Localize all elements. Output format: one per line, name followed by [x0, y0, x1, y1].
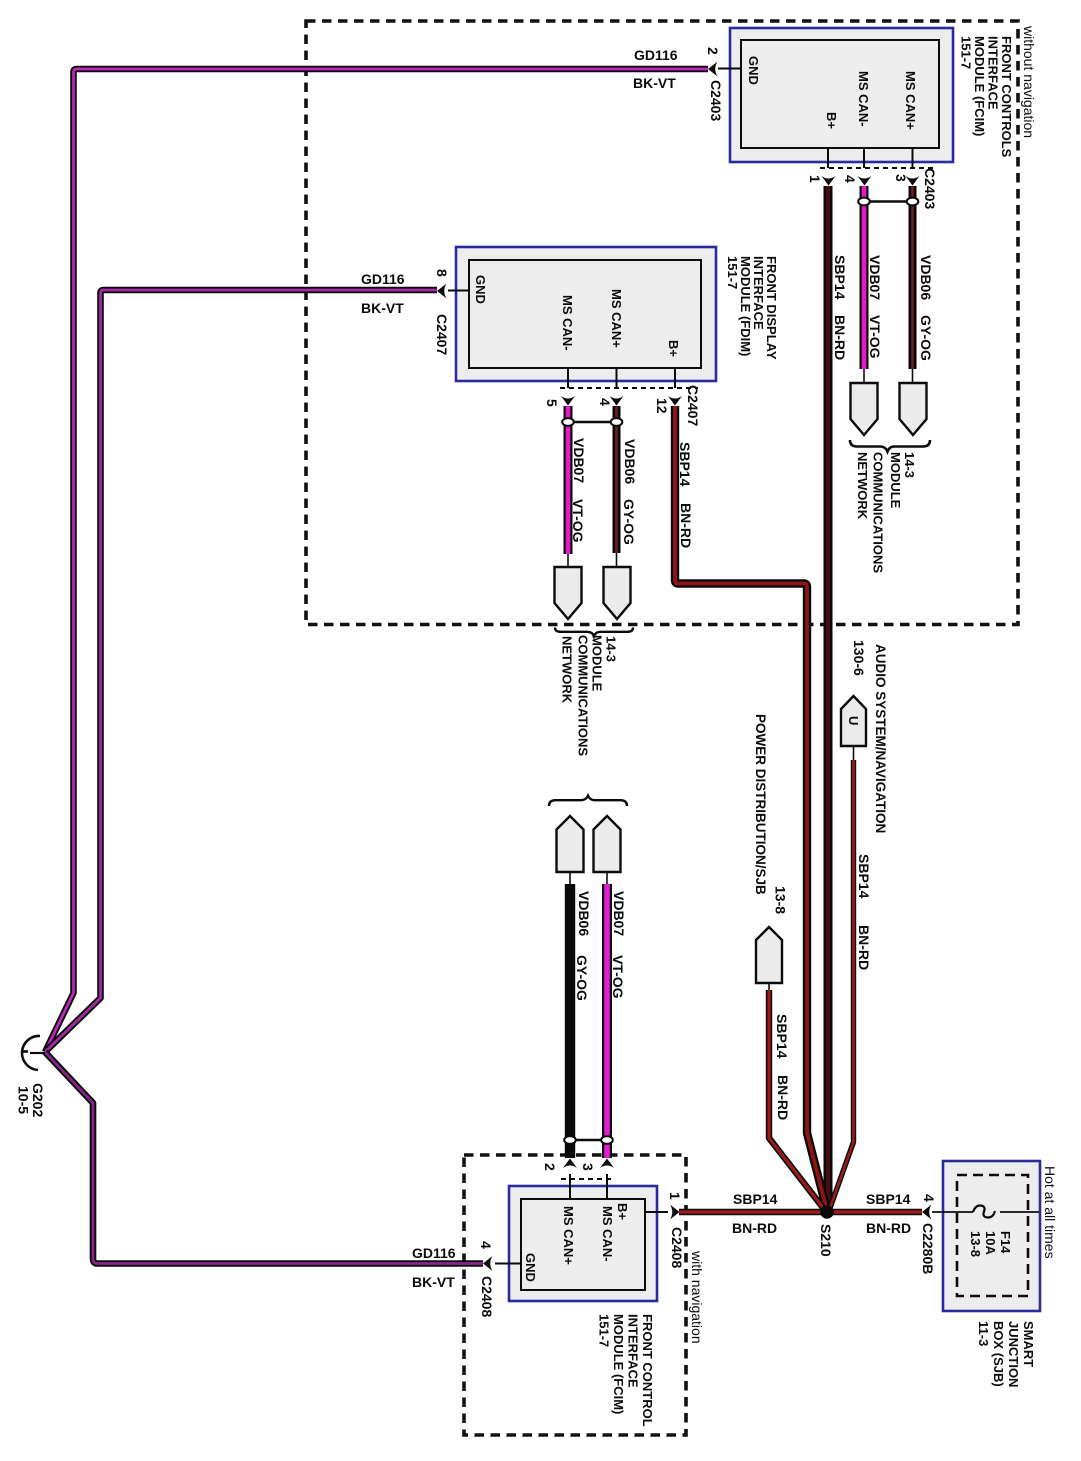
svg-text:2: 2 — [542, 1163, 558, 1171]
svg-text:VDB06: VDB06 — [918, 255, 934, 300]
lead to chevron VDB07 — [863, 369, 865, 383]
svg-text:14-3: 14-3 — [604, 636, 619, 662]
wire GD116 BK-VT from FCIM pin2 to ground G202 (black outer) — [45, 69, 708, 1052]
wire SBP14 BN-RD core (red) — [830, 760, 854, 1208]
fuse feed line — [932, 1211, 1039, 1213]
svg-text:MODULE: MODULE — [590, 635, 605, 692]
svg-text:C2403: C2403 — [922, 168, 938, 209]
pin 12 connector arrow — [668, 396, 682, 406]
connector arrow C2280B (left) — [922, 1205, 932, 1220]
off-page chevron U (audio system) — [841, 696, 866, 746]
wire GD116 BK-VT from FDIM pin8 to ground G202 (black outer) — [45, 290, 437, 1052]
svg-text:4: 4 — [597, 398, 613, 406]
svg-text:13-8: 13-8 — [773, 886, 789, 914]
wire SBP14 BN-RD core (red) — [769, 990, 824, 1209]
svg-text:C2407: C2407 — [685, 385, 701, 426]
wire GD116 BK-VT from ground G202 to FCIM(nav) pin4 (black outer) — [45, 1052, 483, 1264]
svg-text:BK-VT: BK-VT — [633, 75, 676, 91]
module FCIM (top, without navigation) outer box — [730, 28, 953, 162]
network connector chevron up (VDB07, nav) — [594, 816, 621, 872]
svg-text:C2407: C2407 — [434, 314, 450, 355]
svg-text:SBP14: SBP14 — [677, 442, 693, 487]
wire SBP14 BN-RD from FCIM pin1 down to splice S210 (black outer) — [824, 186, 833, 1208]
pin 1 connector arrow (right) — [670, 1205, 680, 1220]
label 14-3 MODULE COMMUNICATIONS NETWORK (FDIM) — [560, 635, 619, 756]
pin 4 lead (MS CAN-) — [863, 148, 865, 168]
svg-text:BN-RD: BN-RD — [678, 503, 694, 548]
svg-text:JUNCTION: JUNCTION — [1006, 1321, 1021, 1387]
svg-text:VT-OG: VT-OG — [867, 315, 883, 359]
svg-text:SBP14: SBP14 — [774, 1014, 790, 1059]
wire SBP14 BN-RD horizontal through splice S210 (black outer) — [679, 1209, 922, 1216]
lead from chevron (VDB07 nav) — [606, 872, 608, 884]
pin 2 connector arrow C2403 — [708, 62, 718, 77]
pin 1 connector arrow — [822, 176, 836, 186]
twisted pair link (FCIM pair) — [864, 200, 913, 203]
svg-text:MS CAN-: MS CAN- — [856, 71, 871, 127]
module FDIM outer box — [456, 247, 716, 381]
svg-text:GY-OG: GY-OG — [574, 955, 590, 1001]
wire GD116 BK-VT core (violet) — [45, 1052, 483, 1264]
svg-text:NETWORK: NETWORK — [855, 452, 870, 520]
svg-text:SBP14: SBP14 — [856, 854, 872, 899]
pin 4 lead (GND, nav) — [495, 1263, 521, 1265]
twisted pair circle left — [562, 418, 574, 426]
label SMART JUNCTION BOX (SJB) 11-3 — [976, 1321, 1036, 1387]
svg-text:130-6: 130-6 — [851, 640, 867, 676]
wire SBP14 BN-RD horizontal core (red) — [679, 1210, 922, 1213]
svg-text:MS CAN+: MS CAN+ — [561, 1206, 576, 1265]
svg-text:without navigation: without navigation — [1021, 25, 1037, 138]
label F14 10A 13-8 — [968, 1231, 1013, 1257]
svg-text:SBP14: SBP14 — [866, 1191, 911, 1207]
svg-text:BN-RD: BN-RD — [832, 315, 848, 360]
wire VDB07 VT-OG from FDIM pin5 (black outer) — [564, 406, 573, 554]
svg-text:FRONT CONTROL: FRONT CONTROL — [640, 1314, 655, 1427]
svg-text:BN-RD: BN-RD — [856, 925, 872, 970]
svg-text:11-3: 11-3 — [976, 1321, 991, 1346]
svg-text:INTERFACE: INTERFACE — [626, 1314, 641, 1388]
wire GD116 BK-VT core (violet) — [45, 290, 437, 1052]
pin 2 lead (nav) — [569, 1174, 571, 1199]
lead from chevron (VDB06 nav) — [569, 872, 571, 884]
label 14-3 MODULE COMMUNICATIONS NETWORK (FCIM) — [855, 452, 917, 573]
svg-text:GD116: GD116 — [634, 47, 678, 63]
wire VDB06 GY-OG core (dark red-brown) — [911, 186, 914, 369]
svg-text:SBP14: SBP14 — [832, 255, 848, 300]
pin 4 connector arrow — [858, 176, 872, 186]
fuse F14 element — [973, 1205, 995, 1217]
lead from power chevron — [768, 983, 770, 990]
svg-text:VDB06: VDB06 — [622, 439, 638, 484]
svg-text:BK-VT: BK-VT — [361, 300, 404, 316]
svg-text:1: 1 — [807, 175, 823, 183]
svg-text:with navigation: with navigation — [689, 1250, 705, 1344]
svg-text:4: 4 — [842, 175, 858, 183]
pin 8 lead (GND) — [448, 290, 469, 292]
wire VDB07 VT-OG core (magenta, nav) — [604, 884, 610, 1158]
wire VDB07 VT-OG down to FCIM(nav) pin3 (black outer) — [602, 884, 612, 1158]
lead to chevron VDB07 (FDIM) — [567, 554, 569, 567]
svg-text:B+: B+ — [615, 1203, 630, 1220]
svg-text:12: 12 — [654, 398, 670, 414]
pin 5 lead (MS CAN-) — [567, 368, 569, 388]
svg-text:B+: B+ — [666, 340, 681, 357]
svg-text:GND: GND — [746, 56, 761, 85]
wire GD116 BK-VT core (violet) — [45, 69, 708, 1052]
wire VDB07 VT-OG core (magenta) — [862, 186, 867, 369]
svg-text:MODULE: MODULE — [888, 452, 903, 509]
svg-text:C2408: C2408 — [669, 1227, 685, 1268]
svg-text:14-3: 14-3 — [902, 452, 917, 478]
svg-text:1: 1 — [667, 1192, 683, 1200]
svg-text:8: 8 — [434, 269, 450, 277]
pin 3 connector arrow — [906, 176, 920, 186]
svg-text:VDB07: VDB07 — [611, 891, 627, 936]
svg-text:COMMUNICATIONS: COMMUNICATIONS — [871, 452, 886, 573]
svg-text:POWER DISTRIBUTION/SJB: POWER DISTRIBUTION/SJB — [753, 714, 768, 895]
dashed enclosure: with navigation system — [464, 1155, 686, 1435]
off-page chevron (power distribution) — [756, 927, 782, 983]
twisted pair circle left (nav) — [564, 1136, 576, 1144]
svg-text:151-7: 151-7 — [959, 36, 974, 69]
svg-text:MS CAN-: MS CAN- — [600, 1206, 615, 1262]
lead to chevron VDB06 — [912, 369, 914, 383]
svg-text:BOX (SJB): BOX (SJB) — [991, 1321, 1006, 1387]
pin 5 connector arrow — [561, 396, 575, 406]
svg-text:C2280B: C2280B — [920, 1223, 936, 1274]
module FCIM inner box — [741, 40, 939, 148]
svg-text:U: U — [846, 716, 861, 725]
ground symbol G202 — [22, 1036, 45, 1070]
network connector chevron (VDB07, FDIM) — [555, 567, 582, 619]
pin 3 connector arrow (up) — [600, 1159, 614, 1169]
svg-text:AUDIO SYSTEM/NAVIGATION: AUDIO SYSTEM/NAVIGATION — [873, 644, 888, 833]
wire SBP14 BN-RD core (dark brown-red) — [826, 186, 830, 1208]
svg-text:2: 2 — [705, 47, 721, 55]
svg-text:5: 5 — [544, 399, 560, 407]
twisted pair circle left — [858, 198, 870, 206]
svg-text:13-8: 13-8 — [968, 1231, 983, 1257]
label FRONT DISPLAY INTERFACE MODULE (FDIM) 151-7 — [725, 256, 779, 360]
svg-text:MODULE (FCIM): MODULE (FCIM) — [611, 1314, 626, 1414]
svg-text:GY-OG: GY-OG — [918, 315, 934, 361]
brace under FCIM chevrons — [850, 440, 930, 452]
svg-text:GND: GND — [473, 275, 488, 304]
splice S210 — [820, 1205, 834, 1219]
svg-text:4: 4 — [921, 1194, 937, 1202]
pin 1 lead (B+) — [827, 148, 829, 168]
network connector chevron up (VDB06, nav) — [557, 816, 584, 872]
svg-text:VT-OG: VT-OG — [570, 499, 586, 543]
module FCIM (bottom, with navigation) outer box — [509, 1186, 657, 1301]
svg-text:C2408: C2408 — [479, 1276, 495, 1317]
svg-text:S210: S210 — [818, 1224, 834, 1257]
svg-text:GY-OG: GY-OG — [621, 499, 637, 545]
brace above nav chevrons — [549, 796, 627, 806]
network connector chevron (VDB06, FCIM) — [900, 383, 927, 435]
svg-text:GND: GND — [523, 1253, 538, 1282]
lead from audio chevron — [853, 746, 855, 760]
svg-text:BK-VT: BK-VT — [412, 1274, 455, 1290]
wire VDB07 VT-OG from FCIM pin4 (black outer) — [860, 186, 869, 369]
wire VDB07 VT-OG core (magenta) — [566, 406, 571, 554]
twisted pair circle right — [611, 418, 623, 426]
svg-text:MS CAN+: MS CAN+ — [903, 71, 918, 130]
wire SBP14 BN-RD from FDIM pin12 to splice S210 (black outer) — [675, 406, 826, 1207]
pin 1 lead (B+, nav) — [645, 1211, 668, 1213]
module FDIM inner box — [469, 260, 701, 368]
svg-text:3: 3 — [893, 174, 909, 182]
svg-text:SBP14: SBP14 — [733, 1191, 778, 1207]
connector C2407 dashed line — [560, 387, 698, 389]
pin 2 connector arrow (up) — [563, 1159, 577, 1169]
twisted pair circle right (nav) — [601, 1136, 613, 1144]
svg-text:Hot at all times: Hot at all times — [1042, 1166, 1058, 1259]
network connector chevron (VDB06, FDIM) — [604, 567, 631, 619]
svg-text:151-7: 151-7 — [725, 256, 740, 289]
twisted pair circle right — [907, 198, 919, 206]
svg-text:MS CAN-: MS CAN- — [560, 295, 575, 351]
svg-text:SMART: SMART — [1021, 1321, 1036, 1367]
svg-text:NETWORK: NETWORK — [560, 636, 575, 704]
dashed enclosure: without navigation system — [306, 21, 1018, 625]
pin 8 connector arrow C2407 — [437, 284, 447, 299]
svg-text:MS CAN+: MS CAN+ — [609, 289, 624, 348]
pin 4 connector arrow (left) — [483, 1256, 493, 1271]
svg-text:BN-RD: BN-RD — [866, 1220, 911, 1236]
wire VDB06 GY-OG core (dark red-brown) — [615, 406, 618, 553]
svg-text:VDB07: VDB07 — [571, 438, 587, 483]
lead to chevron VDB06 (FDIM) — [616, 553, 618, 567]
twisted pair link (FDIM pair) — [568, 421, 617, 424]
pin 3 lead (nav) — [606, 1174, 608, 1199]
connector C2403 dashed line — [820, 167, 936, 169]
wire VDB06 GY-OG down to FCIM(nav) pin2 (black) — [565, 884, 575, 1158]
label FRONT CONTROL INTERFACE MODULE (FCIM) 151-7 (nav) — [597, 1314, 656, 1427]
svg-text:C2403: C2403 — [708, 80, 724, 121]
pin 3 lead (MS CAN+) — [912, 148, 914, 168]
wire SBP14 BN-RD from audio chevron to splice S210 (black outer) — [830, 760, 854, 1208]
svg-text:3: 3 — [580, 1163, 596, 1171]
hot at all times dashed box — [957, 1175, 1028, 1296]
svg-text:VT-OG: VT-OG — [610, 955, 626, 999]
pin 2 lead (GND) — [718, 68, 741, 70]
svg-text:VDB06: VDB06 — [576, 891, 592, 936]
wire VDB06 GY-OG from FCIM pin3 (black outer) — [909, 186, 917, 369]
svg-text:151-7: 151-7 — [597, 1314, 612, 1347]
smart junction box outer (blue) — [943, 1161, 1040, 1311]
pin 12 lead (B+) — [674, 368, 676, 388]
brace under FDIM chevrons — [555, 628, 633, 637]
svg-text:10-5: 10-5 — [16, 1086, 32, 1114]
svg-text:F14: F14 — [998, 1231, 1013, 1254]
connector C2408 dashed line (top pins) — [561, 1178, 614, 1180]
svg-text:4: 4 — [478, 1241, 494, 1249]
svg-text:B+: B+ — [824, 112, 839, 129]
svg-text:GD116: GD116 — [361, 271, 405, 287]
pin 4 connector arrow — [610, 396, 624, 406]
wire SBP14 BN-RD core (red-brown) — [675, 406, 826, 1207]
label FRONT CONTROLS INTERFACE MODULE (FCIM) 151-7 — [959, 36, 1015, 158]
twisted pair link (nav pair) — [570, 1139, 607, 1142]
svg-text:COMMUNICATIONS: COMMUNICATIONS — [576, 635, 591, 756]
pin 4 lead (MS CAN+) — [616, 368, 618, 388]
svg-text:BN-RD: BN-RD — [732, 1220, 777, 1236]
wire VDB06 GY-OG from FDIM pin4 (black outer) — [613, 406, 621, 553]
module FCIM (nav) inner box — [521, 1199, 645, 1290]
network connector chevron (VDB07, FCIM) — [851, 383, 878, 435]
svg-text:VDB07: VDB07 — [867, 255, 883, 300]
wire SBP14 BN-RD from power chevron to splice S210 (black outer) — [769, 990, 824, 1209]
svg-text:10A: 10A — [983, 1231, 998, 1255]
svg-text:GD116: GD116 — [412, 1245, 456, 1261]
svg-text:BN-RD: BN-RD — [775, 1075, 791, 1120]
